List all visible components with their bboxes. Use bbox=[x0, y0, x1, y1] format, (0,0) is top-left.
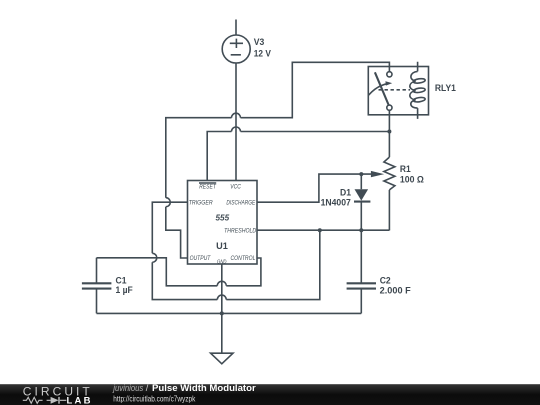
svg-text:100 Ω: 100 Ω bbox=[400, 175, 424, 185]
node junction threshold/D1/C2 bbox=[359, 228, 363, 232]
ground rail wire bbox=[97, 312, 362, 314]
wire relay switch bottom to junction to R1 top bbox=[388, 110, 390, 157]
svg-text:12 V: 12 V bbox=[254, 48, 271, 58]
svg-text:RESET: RESET bbox=[199, 184, 216, 191]
capacitor C2 bbox=[347, 230, 376, 313]
label R1 100ohm bbox=[400, 164, 424, 184]
footer logo zigzag and diode bbox=[23, 397, 67, 404]
svg-text:Pulse Width Modulator: Pulse Width Modulator bbox=[152, 383, 256, 393]
svg-text:RLY1: RLY1 bbox=[435, 83, 456, 93]
wire TRIGGER net: trigger pin left, down, right, up to threshold wire bbox=[152, 202, 319, 299]
svg-text:V3: V3 bbox=[254, 37, 264, 47]
svg-text:U1: U1 bbox=[216, 241, 228, 251]
svg-text:TRIGGER: TRIGGER bbox=[189, 200, 213, 207]
label C1 1uF bbox=[116, 275, 134, 295]
wire C1 top to CONTROL pin bbox=[97, 258, 261, 286]
wire V3 top stub bbox=[235, 20, 237, 36]
voltage source V3 bbox=[222, 35, 250, 63]
ground symbol bbox=[211, 353, 233, 364]
svg-text:CONTROL: CONTROL bbox=[231, 255, 256, 262]
capacitor C1 bbox=[82, 258, 112, 314]
footer title juvinious / Pulse Width Modulator bbox=[112, 383, 256, 393]
pot wiper arrowhead bbox=[371, 171, 384, 177]
svg-text:C2: C2 bbox=[380, 276, 391, 286]
svg-text:1N4007: 1N4007 bbox=[321, 198, 351, 208]
wire V3 minus to VCC pin bbox=[235, 63, 237, 181]
node junction relay/reset/R1 bbox=[387, 130, 391, 134]
wire hop: control wire over GND vertical bbox=[217, 281, 226, 286]
svg-text:DISCHARGE: DISCHARGE bbox=[226, 200, 255, 207]
wire OUTPUT net: output pin jog to relay switch top bbox=[166, 62, 390, 258]
node junction wiper/D1 anode bbox=[359, 172, 363, 176]
footer bar bbox=[0, 384, 540, 405]
label D1 1N4007 bbox=[321, 188, 351, 208]
wire RESET net: reset pin up and right to relay switch bottom bbox=[207, 132, 389, 181]
svg-text:VCC: VCC bbox=[230, 184, 241, 191]
label C2 2.000 F bbox=[380, 276, 411, 296]
svg-text:2.000 F: 2.000 F bbox=[380, 286, 411, 296]
node junction threshold/trig riser bbox=[318, 228, 322, 232]
svg-text:D1: D1 bbox=[340, 188, 351, 198]
svg-text:R1: R1 bbox=[400, 164, 411, 174]
relay RLY1 bbox=[368, 62, 428, 119]
wire hop: trigger bottom wire over GND vertical bbox=[217, 295, 226, 300]
svg-text:555: 555 bbox=[216, 212, 230, 222]
pin label RESET with overline bbox=[199, 183, 217, 191]
wire DISCHARGE net: discharge pin to pot wiper arrow bbox=[257, 174, 372, 202]
svg-text:C1: C1 bbox=[116, 275, 127, 285]
svg-text:THRESHOLD: THRESHOLD bbox=[224, 228, 256, 235]
svg-text:juvinious: juvinious bbox=[112, 383, 143, 393]
wire hop: output horizontal over V3 vertical bbox=[232, 113, 241, 118]
wire THRESHOLD net: threshold pin to R1 bottom bbox=[257, 229, 389, 231]
wire hop: output riser over trigger wire bbox=[166, 198, 171, 207]
wire hop: trigger riser over output/C1 wire bbox=[152, 253, 156, 262]
resistor R1 potentiometer bbox=[384, 157, 395, 230]
svg-text:1 µF: 1 µF bbox=[116, 285, 134, 295]
svg-text:OUTPUT: OUTPUT bbox=[190, 255, 211, 262]
diode D1 bbox=[354, 174, 370, 230]
svg-text:LAB: LAB bbox=[67, 395, 93, 405]
label V3 12 V bbox=[254, 37, 271, 58]
wire GND pin to ground symbol bbox=[221, 264, 223, 353]
op-amp box: 555 timer U1 bbox=[188, 181, 258, 265]
node junction ground rail bbox=[220, 311, 224, 315]
svg-text:GND: GND bbox=[217, 259, 227, 265]
svg-text:http://circuitlab.com/c7wyzpk: http://circuitlab.com/c7wyzpk bbox=[113, 393, 196, 403]
